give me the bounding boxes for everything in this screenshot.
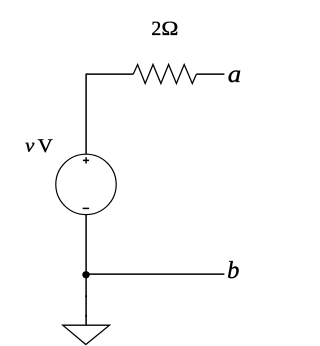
svg-text:V: V — [38, 136, 53, 157]
wire: vertical from corner down to source top — [85, 74, 87, 154]
junction node dot — [82, 271, 89, 278]
voltage source V1 circle — [56, 154, 116, 214]
wire: top-left horizontal lead from corner to resistor — [86, 73, 134, 75]
minus sign inside source — [83, 207, 89, 209]
wire joint mark 2 — [85, 315, 87, 317]
wire: source bottom to node b junction — [85, 215, 87, 276]
wire: resistor to terminal a — [196, 73, 224, 75]
svg-text:Ω: Ω — [161, 18, 178, 40]
plus sign inside source — [83, 157, 89, 163]
resistor R (2 ohm) zigzag — [133, 65, 196, 84]
svg-text:2: 2 — [151, 18, 161, 40]
wire: node down to ground — [85, 275, 87, 325]
svg-text:b: b — [227, 257, 239, 284]
ground symbol triangle — [63, 325, 110, 344]
svg-text:v: v — [25, 136, 35, 157]
wire: horizontal to terminal b — [86, 273, 224, 275]
wire joint mark 1 — [85, 295, 87, 297]
svg-text:a: a — [228, 61, 241, 88]
